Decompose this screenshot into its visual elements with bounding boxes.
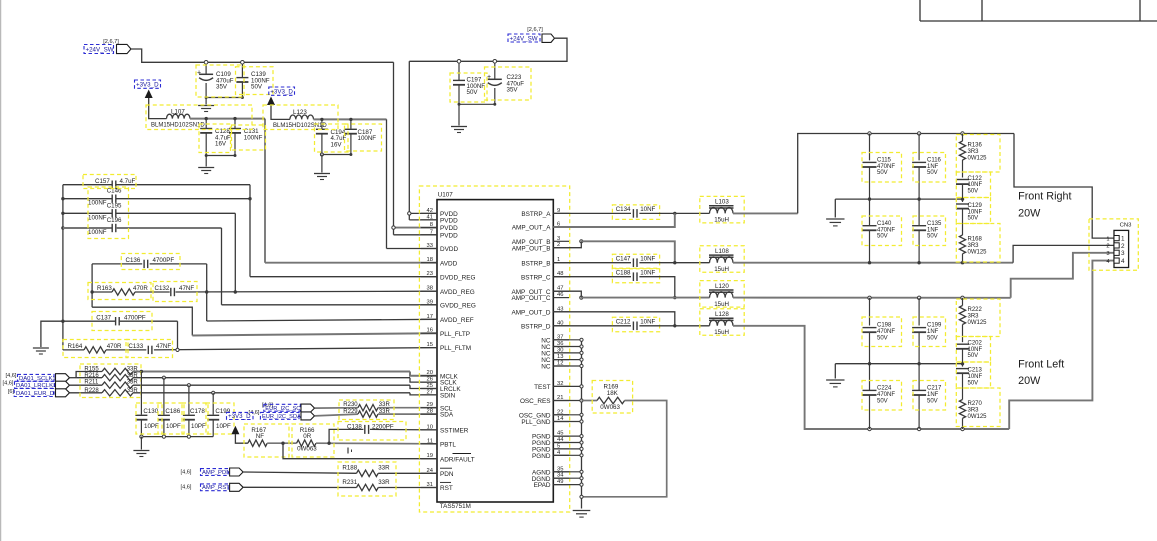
svg-text:[4,6]: [4,6] — [3, 380, 14, 386]
svg-text:SDA: SDA — [440, 412, 454, 419]
svg-text:50V: 50V — [877, 170, 888, 176]
svg-text:3R3: 3R3 — [968, 243, 980, 249]
svg-text:C196: C196 — [107, 217, 122, 224]
svg-text:BLM15HD102SN1D: BLM15HD102SN1D — [273, 123, 327, 129]
svg-text:BSTRP_D: BSTRP_D — [521, 323, 551, 330]
svg-text:100NF: 100NF — [244, 134, 263, 141]
svg-text:470R: 470R — [107, 343, 122, 350]
svg-text:10NF: 10NF — [968, 182, 983, 188]
svg-text:C132: C132 — [155, 285, 170, 292]
svg-text:10NF: 10NF — [968, 374, 983, 380]
svg-text:BSTRP_A: BSTRP_A — [521, 211, 551, 218]
svg-text:17: 17 — [427, 314, 433, 320]
svg-text:RST: RST — [440, 485, 453, 492]
svg-text:20: 20 — [427, 370, 433, 376]
svg-text:SSTIMER: SSTIMER — [440, 428, 469, 435]
svg-text:10NF: 10NF — [968, 209, 983, 215]
svg-text:C213: C213 — [968, 368, 983, 374]
svg-text:20W: 20W — [1018, 375, 1041, 387]
svg-text:4.7uF: 4.7uF — [120, 178, 136, 185]
svg-text:38: 38 — [427, 286, 433, 292]
svg-text:R228: R228 — [84, 388, 99, 394]
svg-text:EUR_I2C_SCL: EUR_I2C_SCL — [265, 406, 303, 412]
svg-text:L108: L108 — [715, 248, 729, 255]
svg-text:2: 2 — [1106, 244, 1109, 250]
svg-text:AMP_OUT_D: AMP_OUT_D — [511, 309, 550, 316]
svg-text:33R: 33R — [127, 367, 139, 373]
svg-text:TAS5751M: TAS5751M — [440, 503, 471, 510]
svg-text:16V: 16V — [215, 141, 227, 148]
svg-text:50V: 50V — [927, 234, 938, 240]
svg-text:33R: 33R — [379, 409, 391, 415]
svg-text:3: 3 — [557, 236, 560, 242]
svg-text:AMP_OUT_B: AMP_OUT_B — [512, 245, 551, 252]
svg-text:C195: C195 — [107, 202, 122, 209]
svg-text:0R: 0R — [303, 433, 311, 440]
svg-text:AMP_OUT_A: AMP_OUT_A — [512, 225, 551, 232]
svg-text:DVDD_REG: DVDD_REG — [440, 274, 476, 281]
svg-text:C130: C130 — [143, 408, 158, 415]
svg-text:42: 42 — [427, 208, 433, 214]
svg-text:1: 1 — [1121, 236, 1125, 243]
svg-text:50V: 50V — [968, 353, 979, 359]
svg-text:+: + — [197, 70, 201, 77]
svg-text:Front Right: Front Right — [1018, 191, 1071, 203]
svg-text:NF: NF — [256, 433, 264, 440]
svg-text:41: 41 — [427, 214, 433, 220]
svg-text:2200PF: 2200PF — [372, 423, 394, 430]
svg-text:DVDD: DVDD — [440, 246, 458, 253]
svg-text:R231: R231 — [342, 479, 357, 486]
svg-text:PVDD: PVDD — [440, 218, 458, 225]
svg-text:U107: U107 — [438, 192, 454, 199]
svg-text:10NF: 10NF — [640, 255, 655, 262]
svg-text:3R3: 3R3 — [968, 408, 980, 414]
svg-text:+24V_SW: +24V_SW — [510, 36, 538, 43]
svg-text:[6]: [6] — [8, 389, 15, 395]
svg-text:C147: C147 — [616, 255, 631, 262]
svg-text:AVDD_REF: AVDD_REF — [440, 317, 474, 324]
svg-text:[4,6]: [4,6] — [6, 373, 17, 379]
svg-text:AVDD_REG: AVDD_REG — [440, 289, 475, 296]
svg-text:Front Left: Front Left — [1018, 359, 1064, 371]
svg-text:3R3: 3R3 — [968, 314, 980, 320]
svg-text:R230: R230 — [343, 402, 358, 408]
svg-text:C115: C115 — [877, 158, 892, 164]
svg-text:C199: C199 — [927, 323, 942, 329]
svg-text:3: 3 — [1121, 250, 1125, 257]
svg-text:24: 24 — [427, 468, 434, 474]
svg-text:46: 46 — [557, 292, 563, 298]
svg-text:10: 10 — [427, 424, 433, 430]
svg-text:100NF: 100NF — [358, 135, 377, 142]
svg-text:C217: C217 — [927, 386, 942, 392]
svg-text:C224: C224 — [877, 386, 892, 392]
svg-text:47NF: 47NF — [156, 343, 171, 350]
svg-text:50V: 50V — [927, 398, 938, 404]
svg-text:C202: C202 — [968, 341, 983, 347]
svg-text:AVDD: AVDD — [440, 260, 458, 267]
svg-text:27: 27 — [427, 389, 433, 395]
svg-text:C140: C140 — [877, 221, 892, 227]
svg-text:BLM15HD102SN1D: BLM15HD102SN1D — [151, 123, 205, 129]
svg-text:PLL_GND: PLL_GND — [521, 419, 551, 426]
svg-text:PLL_FLTM: PLL_FLTM — [440, 345, 471, 352]
svg-text:1NF: 1NF — [927, 164, 939, 170]
svg-text:C133: C133 — [128, 343, 143, 350]
svg-text:R163: R163 — [97, 285, 112, 292]
svg-text:4: 4 — [1121, 258, 1125, 265]
svg-text:+3V3_D: +3V3_D — [270, 89, 293, 96]
svg-text:23: 23 — [427, 271, 433, 277]
svg-text:33: 33 — [427, 243, 433, 249]
svg-text:GVDD_REG: GVDD_REG — [440, 302, 476, 309]
svg-text:OSC_RES: OSC_RES — [520, 398, 551, 405]
svg-text:100NF: 100NF — [88, 200, 107, 207]
svg-text:33R: 33R — [127, 373, 139, 379]
svg-text:L120: L120 — [715, 283, 729, 290]
svg-text:C122: C122 — [968, 176, 983, 182]
svg-text:PVDD: PVDD — [440, 225, 458, 232]
svg-text:35V: 35V — [507, 87, 519, 94]
svg-text:R229: R229 — [343, 409, 358, 415]
svg-text:470NF: 470NF — [877, 392, 895, 398]
svg-text:BSTRP_C: BSTRP_C — [521, 274, 551, 281]
svg-text:10PF: 10PF — [166, 423, 181, 430]
svg-text:29: 29 — [427, 402, 433, 408]
svg-text:16: 16 — [427, 328, 433, 334]
svg-text:31: 31 — [427, 482, 433, 488]
svg-text:AMP_PDN: AMP_PDN — [202, 470, 230, 476]
svg-text:35V: 35V — [216, 84, 228, 91]
svg-text:50V: 50V — [968, 189, 979, 195]
svg-text:33R: 33R — [378, 479, 390, 486]
svg-text:SDIN: SDIN — [440, 393, 456, 400]
svg-text:100NF: 100NF — [88, 229, 107, 236]
svg-text:+3V3_D: +3V3_D — [228, 413, 251, 420]
svg-text:AMP_OUT_C: AMP_OUT_C — [511, 295, 550, 302]
svg-text:[4,6]: [4,6] — [181, 469, 192, 475]
svg-text:0W125: 0W125 — [968, 414, 988, 420]
svg-text:50V: 50V — [968, 216, 979, 222]
svg-text:50V: 50V — [877, 234, 888, 240]
svg-text:R168: R168 — [968, 237, 983, 243]
svg-text:TEST: TEST — [534, 384, 550, 391]
svg-text:PLL_FLTP: PLL_FLTP — [440, 331, 470, 338]
svg-text:18: 18 — [427, 257, 433, 263]
svg-text:470R: 470R — [133, 285, 148, 292]
svg-text:1NF: 1NF — [927, 329, 939, 335]
svg-text:8: 8 — [430, 222, 433, 228]
svg-text:470NF: 470NF — [877, 227, 895, 233]
svg-text:10NF: 10NF — [640, 319, 655, 326]
svg-text:0W125: 0W125 — [968, 249, 988, 255]
svg-text:7: 7 — [430, 229, 433, 235]
svg-text:C135: C135 — [927, 221, 942, 227]
svg-text:[4,6]: [4,6] — [181, 485, 192, 491]
svg-text:L103: L103 — [715, 199, 729, 206]
svg-text:R270: R270 — [968, 401, 983, 407]
svg-text:26: 26 — [427, 377, 433, 383]
svg-text:C134: C134 — [616, 206, 631, 213]
svg-text:0W125: 0W125 — [968, 155, 988, 161]
svg-text:47NF: 47NF — [179, 285, 194, 292]
svg-text:33R: 33R — [127, 379, 139, 385]
svg-text:C212: C212 — [616, 319, 631, 326]
svg-text:C157: C157 — [95, 178, 110, 185]
svg-text:1NF: 1NF — [927, 392, 939, 398]
svg-text:100NF: 100NF — [88, 214, 107, 221]
svg-text:R216: R216 — [84, 373, 99, 379]
svg-text:25: 25 — [427, 383, 433, 389]
svg-text:C116: C116 — [927, 158, 942, 164]
svg-text:1NF: 1NF — [927, 227, 939, 233]
svg-text:0W125: 0W125 — [968, 320, 988, 326]
svg-text:10PF: 10PF — [144, 423, 159, 430]
svg-text:PDN: PDN — [440, 471, 454, 478]
svg-text:PBTL: PBTL — [440, 441, 456, 448]
svg-text:10NF: 10NF — [640, 206, 655, 213]
svg-text:50V: 50V — [927, 170, 938, 176]
svg-text:10PF: 10PF — [216, 423, 231, 430]
svg-text:C186: C186 — [165, 408, 180, 415]
svg-text:BSTRP_B: BSTRP_B — [521, 260, 550, 267]
svg-text:15: 15 — [427, 342, 433, 348]
svg-text:50V: 50V — [968, 380, 979, 386]
svg-text:33R: 33R — [379, 402, 391, 408]
svg-text:28: 28 — [427, 409, 433, 415]
svg-text:R136: R136 — [968, 143, 983, 149]
svg-text:1: 1 — [1106, 236, 1109, 242]
svg-text:39: 39 — [427, 299, 433, 305]
svg-text:50V: 50V — [251, 84, 263, 91]
svg-text:470NF: 470NF — [877, 329, 895, 335]
svg-text:C136: C136 — [126, 257, 141, 264]
svg-text:R222: R222 — [968, 307, 983, 313]
svg-text:0W063: 0W063 — [600, 404, 620, 411]
svg-text:16V: 16V — [331, 141, 343, 148]
svg-text:470NF: 470NF — [877, 164, 895, 170]
svg-text:0W063: 0W063 — [297, 446, 317, 453]
svg-text:L128: L128 — [715, 311, 729, 318]
svg-text:C178: C178 — [190, 408, 205, 415]
svg-text:C198: C198 — [877, 323, 892, 329]
svg-text:20W: 20W — [1018, 208, 1041, 220]
svg-text:R164: R164 — [68, 343, 83, 350]
svg-text:10NF: 10NF — [640, 269, 655, 276]
svg-text:R188: R188 — [342, 465, 357, 472]
svg-text:50V: 50V — [467, 89, 479, 96]
svg-text:10NF: 10NF — [968, 347, 983, 353]
svg-text:C138: C138 — [347, 423, 362, 430]
svg-text:50V: 50V — [927, 335, 938, 341]
svg-text:DA01_EUR_D0: DA01_EUR_D0 — [16, 391, 58, 397]
svg-text:4700PF: 4700PF — [153, 257, 175, 264]
svg-text:CN3: CN3 — [1120, 223, 1133, 229]
svg-text:C137: C137 — [96, 314, 111, 321]
svg-text:R211: R211 — [84, 379, 99, 385]
svg-text:2: 2 — [1121, 243, 1125, 250]
svg-text:R155: R155 — [84, 367, 99, 373]
svg-text:[2,6,7]: [2,6,7] — [527, 27, 543, 33]
svg-text:EUR_I2C_SDA: EUR_I2C_SDA — [262, 414, 301, 420]
svg-text:4700PF: 4700PF — [124, 314, 146, 321]
svg-text:AMP_RST: AMP_RST — [202, 485, 230, 491]
svg-text:C188: C188 — [616, 269, 631, 276]
svg-text:50V: 50V — [877, 398, 888, 404]
svg-text:EPAD: EPAD — [534, 482, 551, 489]
svg-text:+3V3_D: +3V3_D — [136, 82, 159, 89]
svg-text:33R: 33R — [127, 388, 139, 394]
svg-text:ADR/FAULT: ADR/FAULT — [440, 456, 475, 463]
svg-text:10PF: 10PF — [191, 423, 206, 430]
svg-text:+24V_SW: +24V_SW — [86, 47, 114, 54]
svg-text:11: 11 — [427, 438, 433, 444]
svg-text:50V: 50V — [877, 335, 888, 341]
svg-text:PGND: PGND — [532, 453, 551, 460]
svg-text:NC: NC — [541, 364, 551, 371]
svg-text:18K: 18K — [607, 390, 619, 397]
svg-text:33R: 33R — [378, 465, 390, 472]
svg-text:PVDD: PVDD — [440, 232, 458, 239]
svg-text:19: 19 — [427, 453, 433, 459]
svg-text:3: 3 — [1106, 251, 1109, 257]
svg-text:C129: C129 — [968, 203, 983, 209]
svg-text:3R3: 3R3 — [968, 149, 980, 155]
svg-text:DA01_SCLK1: DA01_SCLK1 — [19, 376, 56, 382]
